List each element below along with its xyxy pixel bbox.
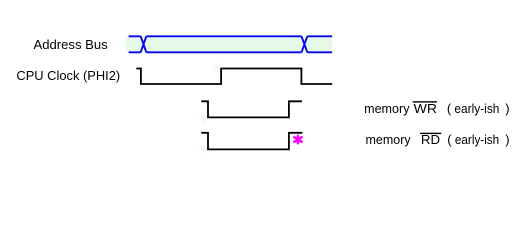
address bus fill (valid data, light green): [125, 37, 332, 51]
svg-text:early-ish: early-ish: [454, 101, 499, 116]
svg-text:RD: RD: [421, 132, 440, 147]
svg-text:(: (: [447, 101, 452, 116]
overline over WR: [413, 101, 437, 102]
bus transition X at end of valid address: [302, 36, 308, 52]
svg-text:): ): [505, 132, 509, 147]
faint erased asterisk near clock rising edge: [213, 63, 221, 73]
address bus top border segments: [129, 35, 333, 37]
overline over RD: [420, 133, 441, 134]
svg-text:memory: memory: [364, 101, 410, 116]
faint erased asterisk near RD falling edge: [200, 143, 208, 153]
svg-text:(: (: [447, 132, 452, 147]
magenta asterisk marker on RD rising edge: [294, 136, 301, 143]
svg-text:CPU Clock (PHI2): CPU Clock (PHI2): [16, 68, 120, 83]
CPU clock waveform (PHI2): [136, 69, 332, 85]
memory RD waveform (active-low pulse): [201, 133, 302, 150]
svg-text:early-ish: early-ish: [455, 132, 499, 147]
svg-text:memory: memory: [366, 132, 412, 147]
svg-text:WR: WR: [414, 101, 437, 116]
svg-text:Address Bus: Address Bus: [34, 37, 109, 52]
memory WR waveform (active-low pulse): [201, 101, 302, 117]
svg-text:): ): [505, 101, 509, 116]
bus transition X at start of valid address: [141, 36, 147, 52]
faint erased asterisk near WR falling edge: [200, 113, 208, 123]
address bus bottom border segments: [129, 51, 333, 53]
